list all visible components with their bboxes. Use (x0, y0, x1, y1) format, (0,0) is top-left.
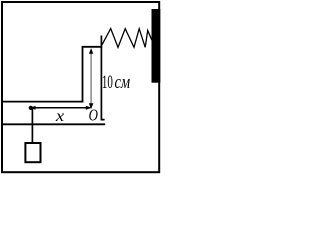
weight box (25, 143, 40, 162)
spring (102, 29, 152, 48)
svg-text:O: O (89, 107, 98, 125)
10cm arrow shaft (grey) (90, 52, 92, 105)
svg-text:10: 10 (102, 72, 113, 93)
svg-text:см: см (115, 71, 131, 92)
x measure line (32, 107, 87, 109)
x measure right arrowhead (86, 106, 92, 110)
string (31, 108, 33, 143)
10cm arrow up head (89, 48, 93, 54)
attachment dot (29, 106, 33, 110)
table line (3, 123, 105, 125)
frame border (2, 2, 159, 172)
rod horizontal (line to left wall) (3, 101, 84, 103)
10cm arrow down head (89, 103, 94, 109)
rod top horizontal (82, 46, 103, 48)
rod vertical (left) (82, 47, 84, 102)
wall (black bar, top right) (152, 9, 161, 83)
x measure left arrowhead (30, 106, 36, 110)
rod vertical (right), with bent foot (101, 36, 104, 120)
svg-text:x: x (55, 107, 65, 124)
